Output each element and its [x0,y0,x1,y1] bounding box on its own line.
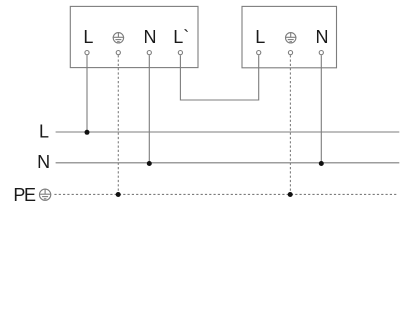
svg-text:L: L [39,122,49,142]
svg-text:L: L [83,27,93,47]
svg-text:L: L [255,27,265,47]
svg-text:PE: PE [13,185,36,205]
svg-text:N: N [316,27,329,47]
svg-text:N: N [37,152,50,172]
svg-text:N: N [144,27,157,47]
svg-text:L`: L` [173,27,189,47]
